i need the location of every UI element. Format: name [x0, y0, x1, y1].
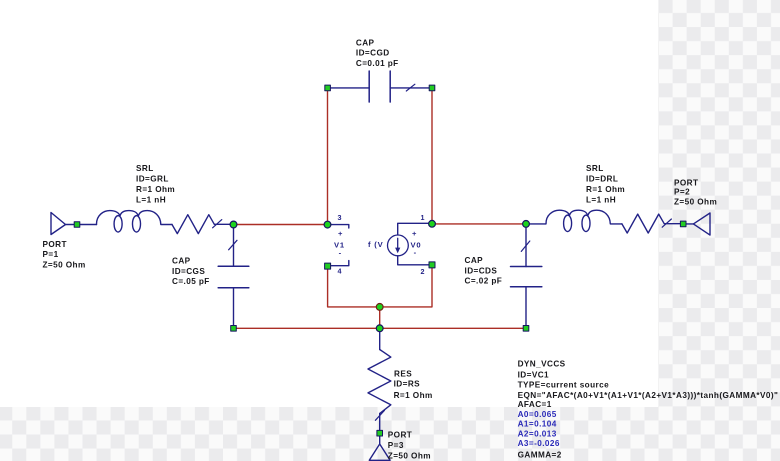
svg-text:ID=CGS: ID=CGS: [172, 267, 205, 276]
svg-text:AFAC=1: AFAC=1: [518, 400, 552, 409]
wire: port1 lead: [66, 224, 97, 226]
svg-text:ID=RS: ID=RS: [394, 380, 421, 389]
capacitor CGS: [218, 226, 249, 327]
wire: port3 lead: [379, 436, 381, 444]
svg-text:ID=VC1: ID=VC1: [518, 370, 549, 379]
svg-text:L=1 nH: L=1 nH: [586, 196, 616, 205]
svg-text:A0=0.065: A0=0.065: [518, 410, 557, 419]
resistor GRL zigzag: [172, 215, 234, 234]
svg-text:ID=CDS: ID=CDS: [465, 267, 498, 276]
wire: RS bottom lead: [379, 414, 381, 431]
terminal square CDS bottom: [523, 326, 529, 332]
junction node CGS top: [230, 221, 237, 228]
terminal square CGD left: [325, 85, 331, 91]
tick on CGD: [406, 84, 415, 91]
svg-text:2: 2: [421, 267, 425, 276]
svg-text:EQN="AFAC*(A0+V1*(A1+V1*(A2+V1: EQN="AFAC*(A0+V1*(A1+V1*(A2+V1*A3)))*tan…: [518, 391, 779, 400]
svg-text:L=1 nH: L=1 nH: [136, 196, 166, 205]
terminal square port1: [74, 222, 80, 228]
resistor RS (vertical): [368, 330, 391, 430]
svg-text:C=.05 pF: C=.05 pF: [172, 277, 210, 286]
wire: red node 3 left to CGS junction: [234, 224, 328, 226]
svg-text:Z=50 Ohm: Z=50 Ohm: [388, 452, 431, 461]
wire: CGD left lead: [330, 87, 369, 89]
svg-text:A1=0.104: A1=0.104: [518, 420, 557, 429]
svg-text:-: -: [414, 248, 417, 257]
svg-text:ID=GRL: ID=GRL: [136, 175, 169, 184]
tick on CDS: [521, 241, 530, 251]
wire: CGS top lead: [233, 226, 235, 266]
V1 top bracket: [331, 225, 349, 228]
junction node mid: [376, 304, 383, 311]
svg-text:Z=50 Ohm: Z=50 Ohm: [674, 198, 717, 207]
svg-text:P=1: P=1: [43, 250, 59, 259]
svg-text:+: +: [412, 229, 417, 238]
V1 meter element: [331, 225, 349, 266]
tick on SRL GRL: [213, 220, 222, 228]
VCCS V0 source: [388, 223, 430, 264]
svg-text:+: +: [338, 229, 343, 238]
terminal square CGS bottom: [231, 326, 237, 332]
svg-text:CAP: CAP: [356, 38, 375, 47]
svg-text:CAP: CAP: [465, 256, 484, 265]
CDS plates: [511, 266, 542, 268]
svg-text:PORT: PORT: [43, 240, 67, 249]
resistor DRL zigzag: [622, 214, 680, 233]
terminal square port2: [680, 221, 686, 227]
wire: RS top lead: [379, 330, 381, 350]
port P1 triangle: [51, 213, 66, 235]
terminal square port3: [377, 430, 383, 436]
inductor DRL coil: [529, 210, 622, 231]
svg-text:Z=50 Ohm: Z=50 Ohm: [43, 260, 86, 269]
junction node 3: [324, 221, 331, 228]
wire: red V1 bottom down-right U: [328, 268, 380, 307]
wire: red bottom bus: [234, 327, 527, 329]
tick on RS: [375, 410, 384, 420]
CGS plates: [218, 265, 249, 267]
svg-text:CAP: CAP: [172, 257, 191, 266]
wire: CGD right lead: [390, 87, 429, 89]
CGD plates: [368, 71, 370, 102]
svg-text:ID=DRL: ID=DRL: [586, 175, 618, 184]
svg-text:C=.02 pF: C=.02 pF: [465, 277, 503, 286]
svg-text:f (V: f (V: [368, 240, 384, 249]
junction node CDS top: [523, 221, 530, 228]
svg-text:GAMMA=2: GAMMA=2: [518, 451, 562, 460]
junction node 1: [429, 220, 436, 227]
wire: V0 bottom: [398, 256, 430, 265]
wire: CGS bottom lead: [233, 288, 235, 327]
terminal square CGD right: [429, 85, 435, 91]
wire: red node 1 right to CDS junction: [432, 223, 526, 225]
svg-text:R=1 Ohm: R=1 Ohm: [586, 185, 625, 194]
svg-text:1: 1: [421, 213, 425, 222]
svg-text:-: -: [339, 249, 342, 258]
wire: red vertical CGD-right to node 1: [431, 90, 433, 223]
svg-text:A2=0.013: A2=0.013: [518, 430, 557, 439]
capacitor CDS: [511, 226, 542, 327]
svg-text:SRL: SRL: [586, 164, 604, 173]
inductor GRL coil: [96, 211, 172, 232]
V0 circle: [388, 235, 409, 256]
svg-text:R=1 Ohm: R=1 Ohm: [136, 185, 175, 194]
wire: port2 lead: [686, 223, 693, 225]
svg-text:PORT: PORT: [388, 431, 412, 440]
white canvas: [0, 0, 658, 407]
svg-text:TYPE=current source: TYPE=current source: [518, 381, 610, 390]
junction node bus: [376, 325, 383, 332]
svg-text:4: 4: [338, 266, 342, 275]
V0 arrow: [397, 238, 399, 250]
V1 bottom bracket: [331, 261, 349, 266]
svg-text:R=1 Ohm: R=1 Ohm: [394, 391, 433, 400]
tick on CGS: [229, 240, 237, 250]
svg-text:DYN_VCCS: DYN_VCCS: [518, 360, 566, 369]
port P2 triangle: [693, 213, 710, 235]
svg-text:P=3: P=3: [388, 441, 404, 450]
wire: CDS top lead: [525, 226, 527, 267]
wire: CDS bottom lead: [525, 287, 527, 327]
tick on SRL DRL: [662, 219, 671, 227]
wire: red link between junctions: [379, 307, 381, 328]
RS zigzag: [368, 350, 391, 414]
wire: red vertical CGD-left to node 3: [327, 90, 329, 224]
wire: V0 top: [398, 223, 430, 235]
svg-text:SRL: SRL: [136, 164, 154, 173]
svg-text:A3=-0.026: A3=-0.026: [518, 439, 560, 448]
terminal square V1 node 4: [325, 263, 331, 269]
port P3 triangle: [369, 444, 390, 460]
svg-text:C=0.01 pF: C=0.01 pF: [356, 59, 399, 68]
svg-text:3: 3: [338, 213, 342, 222]
terminal square V0 node 2: [429, 262, 435, 268]
svg-text:P=2: P=2: [674, 188, 690, 197]
svg-text:RES: RES: [394, 370, 412, 379]
wire: red V0 bottom down-left U: [380, 267, 432, 307]
capacitor CGD (top): [330, 71, 430, 102]
svg-text:ID=CGD: ID=CGD: [356, 48, 390, 57]
svg-text:PORT: PORT: [674, 178, 698, 187]
